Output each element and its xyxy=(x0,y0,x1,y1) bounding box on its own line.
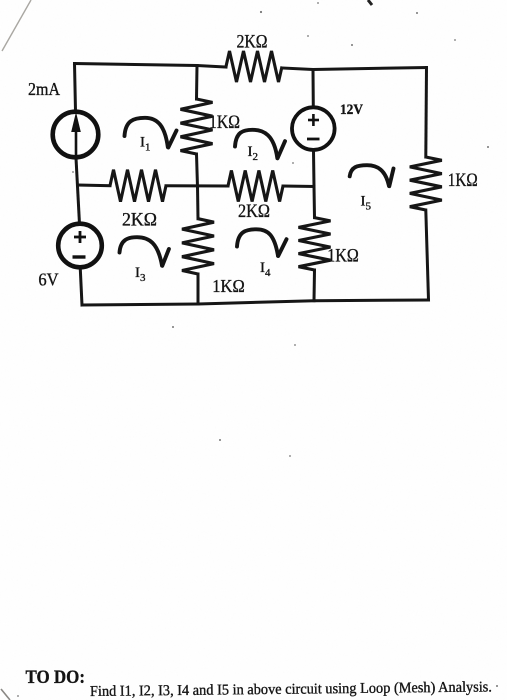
wire middle row left xyxy=(78,184,110,188)
wire 12V branch bottom xyxy=(314,151,315,218)
wire middle row right xyxy=(283,185,314,189)
resistor vertical far-right 1K xyxy=(410,157,442,210)
resistor vertical top-middle 1K xyxy=(181,99,213,154)
6V minus sign xyxy=(73,255,86,258)
loop arrow I4 xyxy=(237,229,278,256)
scan artifact: corner mark bottom-left xyxy=(1,689,10,700)
wire middle branch below mid row xyxy=(196,186,200,219)
wire 12V branch top xyxy=(312,70,315,108)
current source 2mA circle xyxy=(53,112,99,158)
svg-text:1KΩ: 1KΩ xyxy=(212,276,245,296)
loop arrow I5 xyxy=(350,165,389,186)
scan artifact: tick top edge xyxy=(368,0,372,5)
loop arrow I2 xyxy=(235,130,277,158)
wire top left segment xyxy=(75,64,227,68)
wire top right segment xyxy=(282,68,427,70)
svg-text:1KΩ: 1KΩ xyxy=(209,113,240,133)
current source arrow xyxy=(75,124,78,156)
wire middle branch upper xyxy=(195,66,199,100)
voltage source 12V circle xyxy=(292,107,335,150)
wire left: 2mA to 6V xyxy=(76,158,80,224)
svg-text:1KΩ: 1KΩ xyxy=(448,171,478,191)
wire middle branch to bottom xyxy=(197,274,200,304)
svg-text:2KΩ: 2KΩ xyxy=(238,202,270,222)
wire bottom xyxy=(82,300,429,305)
loop arrow I3 xyxy=(120,237,163,265)
wire left: 6V to bottom corner xyxy=(80,267,82,305)
wire left: top corner to 2mA source xyxy=(75,64,76,112)
6V plus sign xyxy=(74,236,86,239)
resistor vertical bottom-middle 1K xyxy=(182,219,214,274)
wire below right-middle resistor xyxy=(313,270,317,301)
svg-text:TO DO:: TO DO: xyxy=(26,667,86,688)
wire right: resistor to bottom corner xyxy=(426,210,429,300)
wire middle row center xyxy=(166,184,228,187)
svg-text:2KΩ: 2KΩ xyxy=(122,210,157,231)
resistor R top 2K xyxy=(226,51,282,82)
svg-text:2mA: 2mA xyxy=(28,79,60,99)
voltage source 6V circle xyxy=(58,224,102,268)
resistor vertical right-middle 1K xyxy=(299,218,331,270)
resistor mid-left 2K xyxy=(110,170,166,202)
svg-text:6V: 6V xyxy=(38,269,58,289)
12V plus sign xyxy=(308,119,319,122)
svg-text:12V: 12V xyxy=(340,102,363,118)
resistor mid-right 2K xyxy=(228,171,283,202)
svg-text:1KΩ: 1KΩ xyxy=(327,247,359,267)
svg-text:2KΩ: 2KΩ xyxy=(237,31,268,52)
wire middle branch between resistors xyxy=(197,154,198,187)
scan artifact: diagonal line top-left xyxy=(2,0,31,51)
12V minus sign xyxy=(307,138,320,141)
loop arrow I1 xyxy=(125,118,168,147)
wire right: top corner down to resistor xyxy=(424,68,428,158)
